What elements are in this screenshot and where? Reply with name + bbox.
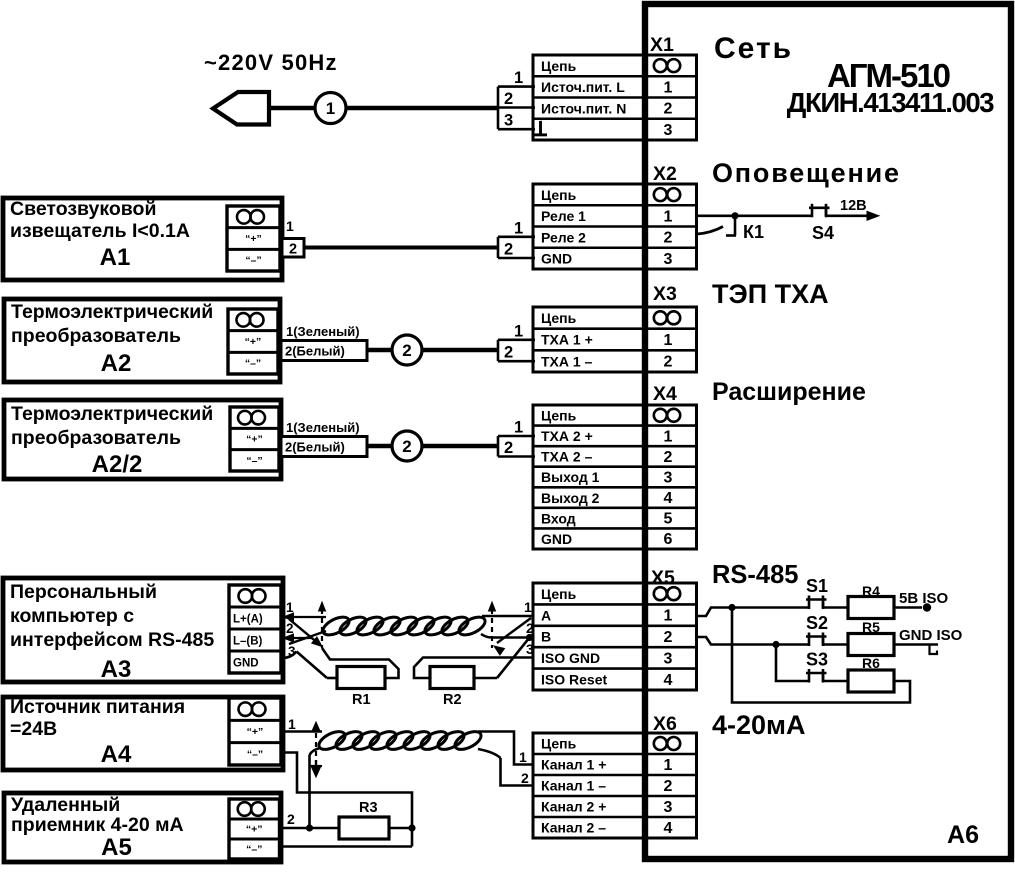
diagonal wire pin1 to shield point	[289, 619, 322, 647]
A1 pin 1 label	[286, 218, 294, 234]
svg-text:“–”: “–”	[247, 748, 263, 760]
wire pair lower down to A5 plus	[310, 748, 321, 828]
svg-text:компьютер с: компьютер с	[10, 605, 134, 627]
svg-text:Канал 1 +: Канал 1 +	[541, 757, 606, 773]
device A2/2 Термоэлектрический преобразователь	[4, 400, 281, 479]
section label Оповещение	[712, 158, 901, 188]
svg-text:3: 3	[664, 122, 673, 139]
switch S3	[806, 650, 828, 683]
svg-text:1: 1	[514, 419, 523, 437]
wire A4 plus to pair	[283, 730, 322, 732]
svg-text:=24В: =24В	[10, 718, 57, 740]
label А6	[947, 821, 979, 849]
wire pair to X6 Канал 1+	[478, 732, 533, 765]
wire cable 2 to X3	[422, 348, 498, 352]
diagonal X5 pin1 to shield point	[494, 618, 531, 655]
svg-text:Реле 1: Реле 1	[541, 208, 586, 224]
shield dashed line 4-20 with down ground arrow	[310, 722, 322, 777]
svg-text:X1: X1	[650, 34, 674, 56]
svg-text:2(Белый): 2(Белый)	[285, 440, 345, 455]
svg-text:ТХА 2 +: ТХА 2 +	[541, 428, 593, 444]
wire R1 right lead to pair	[322, 648, 399, 678]
svg-text:2: 2	[402, 341, 411, 360]
wire R2 right lead to X5 B junction	[474, 638, 530, 679]
svg-text:“+”: “+”	[245, 233, 262, 245]
cable marker circle 2 (TXA1)	[392, 335, 422, 365]
connector X4 table	[533, 404, 697, 550]
A2/2 wire label 1(Зеленый)	[286, 420, 360, 435]
svg-text:Цепь: Цепь	[541, 187, 577, 203]
svg-text:1: 1	[664, 428, 673, 445]
wire A2 to cable marker 2	[367, 348, 392, 352]
svg-text:X4: X4	[653, 383, 677, 405]
svg-text:“+”: “+”	[246, 824, 263, 836]
svg-text:Оповещение: Оповещение	[712, 158, 901, 188]
svg-text:S2: S2	[806, 613, 828, 633]
svg-text:2: 2	[287, 811, 295, 827]
svg-text:X2: X2	[653, 163, 677, 185]
label ~220V 50Hz	[204, 50, 338, 75]
svg-text:R5: R5	[862, 619, 880, 635]
diagonal wire pin2 to pair	[289, 631, 326, 644]
wire cable 1 to X1	[346, 106, 498, 111]
svg-text:Выход 2: Выход 2	[541, 490, 600, 506]
svg-text:3: 3	[664, 799, 673, 816]
svg-text:1: 1	[514, 322, 523, 340]
svg-text:Удаленный: Удаленный	[11, 794, 120, 816]
svg-text:Цепь: Цепь	[541, 58, 577, 74]
wire A3 L+(A) with arrowhead	[284, 613, 327, 621]
svg-text:R1: R1	[352, 692, 371, 708]
svg-text:2: 2	[664, 449, 673, 466]
svg-text:2: 2	[504, 439, 513, 457]
svg-text:1: 1	[664, 757, 673, 774]
connector X2 table	[533, 183, 697, 270]
section label ТЭП ТХА	[712, 279, 829, 309]
svg-text:Термоэлектрический: Термоэлектрический	[11, 301, 213, 323]
svg-text:2: 2	[664, 354, 673, 371]
svg-text:S4: S4	[812, 223, 834, 243]
X6 pin labels 1 2	[519, 749, 529, 786]
wire A5 minus	[281, 845, 412, 848]
svg-text:5В ISO: 5В ISO	[899, 590, 949, 607]
wire cable 2 to X4	[422, 444, 498, 448]
svg-text:2: 2	[664, 230, 673, 247]
svg-text:1: 1	[286, 218, 294, 234]
relay contact K1	[697, 216, 764, 242]
svg-text:“+”: “+”	[246, 434, 263, 446]
svg-text:S3: S3	[806, 650, 828, 670]
device A1 Светозвуковой извещатель	[3, 198, 282, 280]
svg-text:Цепь: Цепь	[541, 407, 577, 423]
connector designator X2	[653, 163, 677, 185]
junction on Реле 1 wire	[731, 212, 738, 219]
svg-text:1: 1	[664, 332, 673, 349]
wire pair to X5 B with junction	[481, 634, 533, 641]
connector designator X1	[650, 34, 674, 56]
svg-text:1: 1	[664, 79, 673, 96]
connector X6 table	[533, 732, 697, 839]
svg-text:преобразователь: преобразователь	[11, 325, 181, 347]
svg-text:ДКИН.413411.003: ДКИН.413411.003	[787, 87, 995, 118]
svg-text:интерфейсом RS-485: интерфейсом RS-485	[10, 629, 214, 651]
svg-text:ТЭП ТХА: ТЭП ТХА	[712, 279, 829, 309]
svg-text:2: 2	[664, 101, 673, 118]
svg-text:Расширение: Расширение	[712, 378, 866, 406]
svg-text:“+”: “+”	[245, 336, 262, 348]
svg-text:3: 3	[664, 251, 673, 268]
svg-text:А: А	[541, 607, 551, 623]
svg-text:ТХА 2 –: ТХА 2 –	[541, 449, 593, 465]
svg-text:L–(B): L–(B)	[233, 636, 263, 648]
wire A1 to X2	[304, 246, 498, 250]
connector designator X6	[653, 713, 677, 735]
wire R3 to loop junction	[389, 824, 416, 831]
svg-text:1: 1	[514, 219, 523, 237]
device A6 АГМ-510 enclosure box	[645, 4, 1011, 859]
shield dashed line left with up arrow	[319, 602, 326, 648]
svg-text:X3: X3	[653, 283, 677, 305]
svg-text:К1: К1	[743, 222, 764, 242]
svg-text:Сеть: Сеть	[714, 32, 793, 65]
svg-text:2(Белый): 2(Белый)	[285, 344, 345, 359]
resistor R4	[823, 583, 894, 619]
svg-text:Канал 1 –: Канал 1 –	[541, 778, 606, 794]
svg-text:2: 2	[504, 241, 513, 259]
svg-text:А2: А2	[101, 350, 132, 377]
wire X2 Реле 1 output	[696, 215, 812, 218]
connector X1 table	[533, 54, 697, 141]
wire X5 A to S1	[696, 604, 809, 616]
connector designator X5	[651, 567, 675, 589]
section label Расширение	[712, 378, 866, 406]
svg-text:Цепь: Цепь	[541, 586, 577, 602]
svg-text:А2/2: А2/2	[92, 451, 143, 478]
device A4 Источник питания 24В	[3, 696, 283, 770]
svg-text:3: 3	[504, 112, 513, 130]
svg-text:А5: А5	[101, 834, 132, 861]
A2 wire label box 2(Белый)	[281, 341, 367, 361]
label ДКИН.413411.003	[787, 87, 995, 118]
wire plug to cable marker 1	[269, 106, 315, 111]
svg-text:“–”: “–”	[246, 455, 262, 467]
svg-text:1: 1	[664, 608, 673, 625]
wire S2 junction down to S3	[776, 645, 809, 682]
A4 pin 1 label	[288, 716, 296, 732]
svg-text:Цепь: Цепь	[541, 736, 577, 752]
svg-text:“–”: “–”	[245, 255, 261, 267]
svg-text:приемник 4-20 мА: приемник 4-20 мА	[11, 814, 184, 836]
svg-text:Цепь: Цепь	[541, 310, 577, 326]
A3 pin labels 1 2 3	[286, 600, 296, 659]
svg-text:4: 4	[664, 490, 673, 507]
wire A4 minus down to R3 loop	[283, 753, 412, 847]
svg-text:R3: R3	[359, 800, 378, 816]
resistor R2	[414, 658, 533, 709]
svg-text:2: 2	[504, 344, 513, 362]
svg-text:ISO Reset: ISO Reset	[541, 672, 607, 688]
svg-text:“–”: “–”	[245, 358, 261, 370]
svg-text:“–”: “–”	[246, 844, 262, 856]
svg-text:2: 2	[521, 770, 529, 786]
switch S2	[806, 613, 828, 646]
label АГМ-510	[827, 57, 950, 94]
svg-text:Источ.пит. N: Источ.пит. N	[541, 100, 626, 116]
svg-text:2: 2	[289, 242, 297, 258]
section label Сеть	[714, 32, 793, 65]
svg-text:Источник питания: Источник питания	[10, 696, 185, 718]
svg-text:1: 1	[514, 69, 523, 87]
X5 pin labels 1 2 3	[524, 599, 534, 657]
resistor R5	[823, 619, 894, 656]
svg-text:L+(A): L+(A)	[233, 614, 263, 626]
svg-text:Персональный: Персональный	[10, 581, 157, 603]
A5 pin 2 label	[287, 811, 295, 827]
X2 pin bracket wires 1 2	[498, 219, 535, 258]
svg-text:В: В	[541, 629, 551, 645]
svg-text:S1: S1	[806, 576, 828, 596]
wire S4 to 12В output arrow	[826, 198, 879, 220]
svg-text:1: 1	[326, 99, 335, 118]
svg-text:Реле 2: Реле 2	[541, 229, 586, 245]
wire pair to X5 A	[482, 615, 533, 617]
svg-text:2: 2	[402, 437, 411, 456]
shield dashed line right with up arrow	[489, 602, 496, 648]
A2/2 wire label box 2(Белый)	[281, 437, 367, 457]
svg-text:Светозвуковой: Светозвуковой	[10, 198, 156, 220]
svg-text:Вход: Вход	[541, 510, 576, 526]
svg-text:Термоэлектрический: Термоэлектрический	[11, 403, 213, 425]
svg-text:RS-485: RS-485	[712, 561, 798, 589]
svg-text:А6: А6	[947, 821, 979, 849]
wire pair to X6 Канал 1-	[478, 749, 533, 786]
svg-text:1: 1	[519, 749, 527, 765]
twisted pair RS-485 cable	[320, 613, 488, 638]
svg-text:А1: А1	[100, 244, 131, 271]
A2 wire label 1(Зеленый)	[286, 324, 360, 339]
svg-text:Канал 2 +: Канал 2 +	[541, 799, 606, 815]
device A3 Персональный компьютер RS-485	[3, 578, 283, 683]
X4 pin bracket wires 1 2	[498, 419, 535, 458]
svg-text:GND ISO: GND ISO	[899, 627, 963, 644]
connector designator X3	[653, 283, 677, 305]
svg-text:4: 4	[664, 672, 673, 689]
svg-text:преобразователь: преобразователь	[11, 427, 181, 449]
wire A5 plus to R3	[281, 824, 339, 831]
wire A2/2 to cable marker 2	[367, 444, 392, 448]
svg-text:А3: А3	[101, 656, 132, 683]
terminal 5В ISO	[894, 590, 949, 612]
svg-text:Источ.пит. L: Источ.пит. L	[541, 79, 625, 95]
wire R6 loop back to A junction	[732, 608, 910, 703]
svg-text:1(Зеленый): 1(Зеленый)	[286, 324, 360, 339]
svg-text:GND: GND	[541, 251, 572, 267]
svg-text:А4: А4	[101, 741, 132, 768]
svg-text:12В: 12В	[840, 198, 867, 214]
svg-text:R4: R4	[862, 583, 880, 599]
svg-text:извещатель I<0.1A: извещатель I<0.1A	[10, 220, 190, 242]
resistor R3	[339, 800, 389, 839]
cable marker circle 1	[315, 93, 346, 124]
svg-text:2: 2	[664, 629, 673, 646]
svg-text:Выход 1: Выход 1	[541, 469, 600, 485]
section label RS-485	[712, 561, 798, 589]
svg-text:3: 3	[526, 641, 534, 657]
twisted pair 4-20мА cable	[316, 728, 484, 753]
svg-text:GND: GND	[233, 658, 259, 670]
section label 4-20мА	[712, 710, 806, 740]
device A5 Удаленный приемник 4-20 мА	[4, 793, 281, 862]
wire X5 B to S2	[696, 637, 809, 648]
svg-text:ТХА 1 –: ТХА 1 –	[541, 353, 593, 369]
wire A3 GND to R1	[282, 652, 327, 679]
svg-text:ТХА 1 +: ТХА 1 +	[541, 332, 593, 348]
svg-text:1(Зеленый): 1(Зеленый)	[286, 420, 360, 435]
switch S4	[809, 204, 834, 243]
svg-text:ISO GND: ISO GND	[541, 650, 600, 666]
svg-text:1: 1	[664, 208, 673, 225]
svg-text:4: 4	[664, 820, 673, 837]
svg-text:2: 2	[504, 90, 513, 108]
X1 pin bracket wires 1 2 3	[498, 69, 535, 130]
wire A3 L-(B) with arrowhead	[284, 634, 313, 642]
resistor R1	[327, 667, 385, 709]
svg-text:6: 6	[664, 531, 673, 548]
svg-text:2: 2	[664, 778, 673, 795]
resistor R6	[823, 655, 894, 692]
svg-text:5: 5	[664, 511, 673, 528]
svg-text:R6: R6	[862, 655, 880, 671]
cable marker circle 2 (TXA2)	[392, 431, 422, 461]
svg-text:1: 1	[288, 716, 296, 732]
connector X5 table	[533, 582, 697, 691]
svg-text:2: 2	[526, 620, 534, 636]
connector X3 table	[533, 306, 697, 373]
svg-text:3: 3	[664, 470, 673, 487]
X3 pin bracket wires 1 2	[498, 322, 535, 361]
svg-text:GND: GND	[541, 531, 572, 547]
svg-text:Канал 2 –: Канал 2 –	[541, 820, 606, 836]
svg-text:R2: R2	[443, 692, 462, 708]
svg-text:“+”: “+”	[247, 726, 264, 738]
output GND ISO with ground hook	[894, 627, 963, 654]
svg-text:~220V 50Hz: ~220V 50Hz	[204, 50, 338, 75]
connector designator X4	[653, 383, 677, 405]
svg-text:1: 1	[524, 599, 532, 615]
switch S1	[806, 576, 828, 609]
device A2 Термоэлектрический преобразователь	[4, 299, 280, 382]
mains plug arrow	[213, 92, 269, 125]
svg-text:4-20мА: 4-20мА	[712, 710, 806, 740]
A1 pin 2 terminal box	[282, 239, 304, 258]
svg-text:3: 3	[664, 650, 673, 667]
